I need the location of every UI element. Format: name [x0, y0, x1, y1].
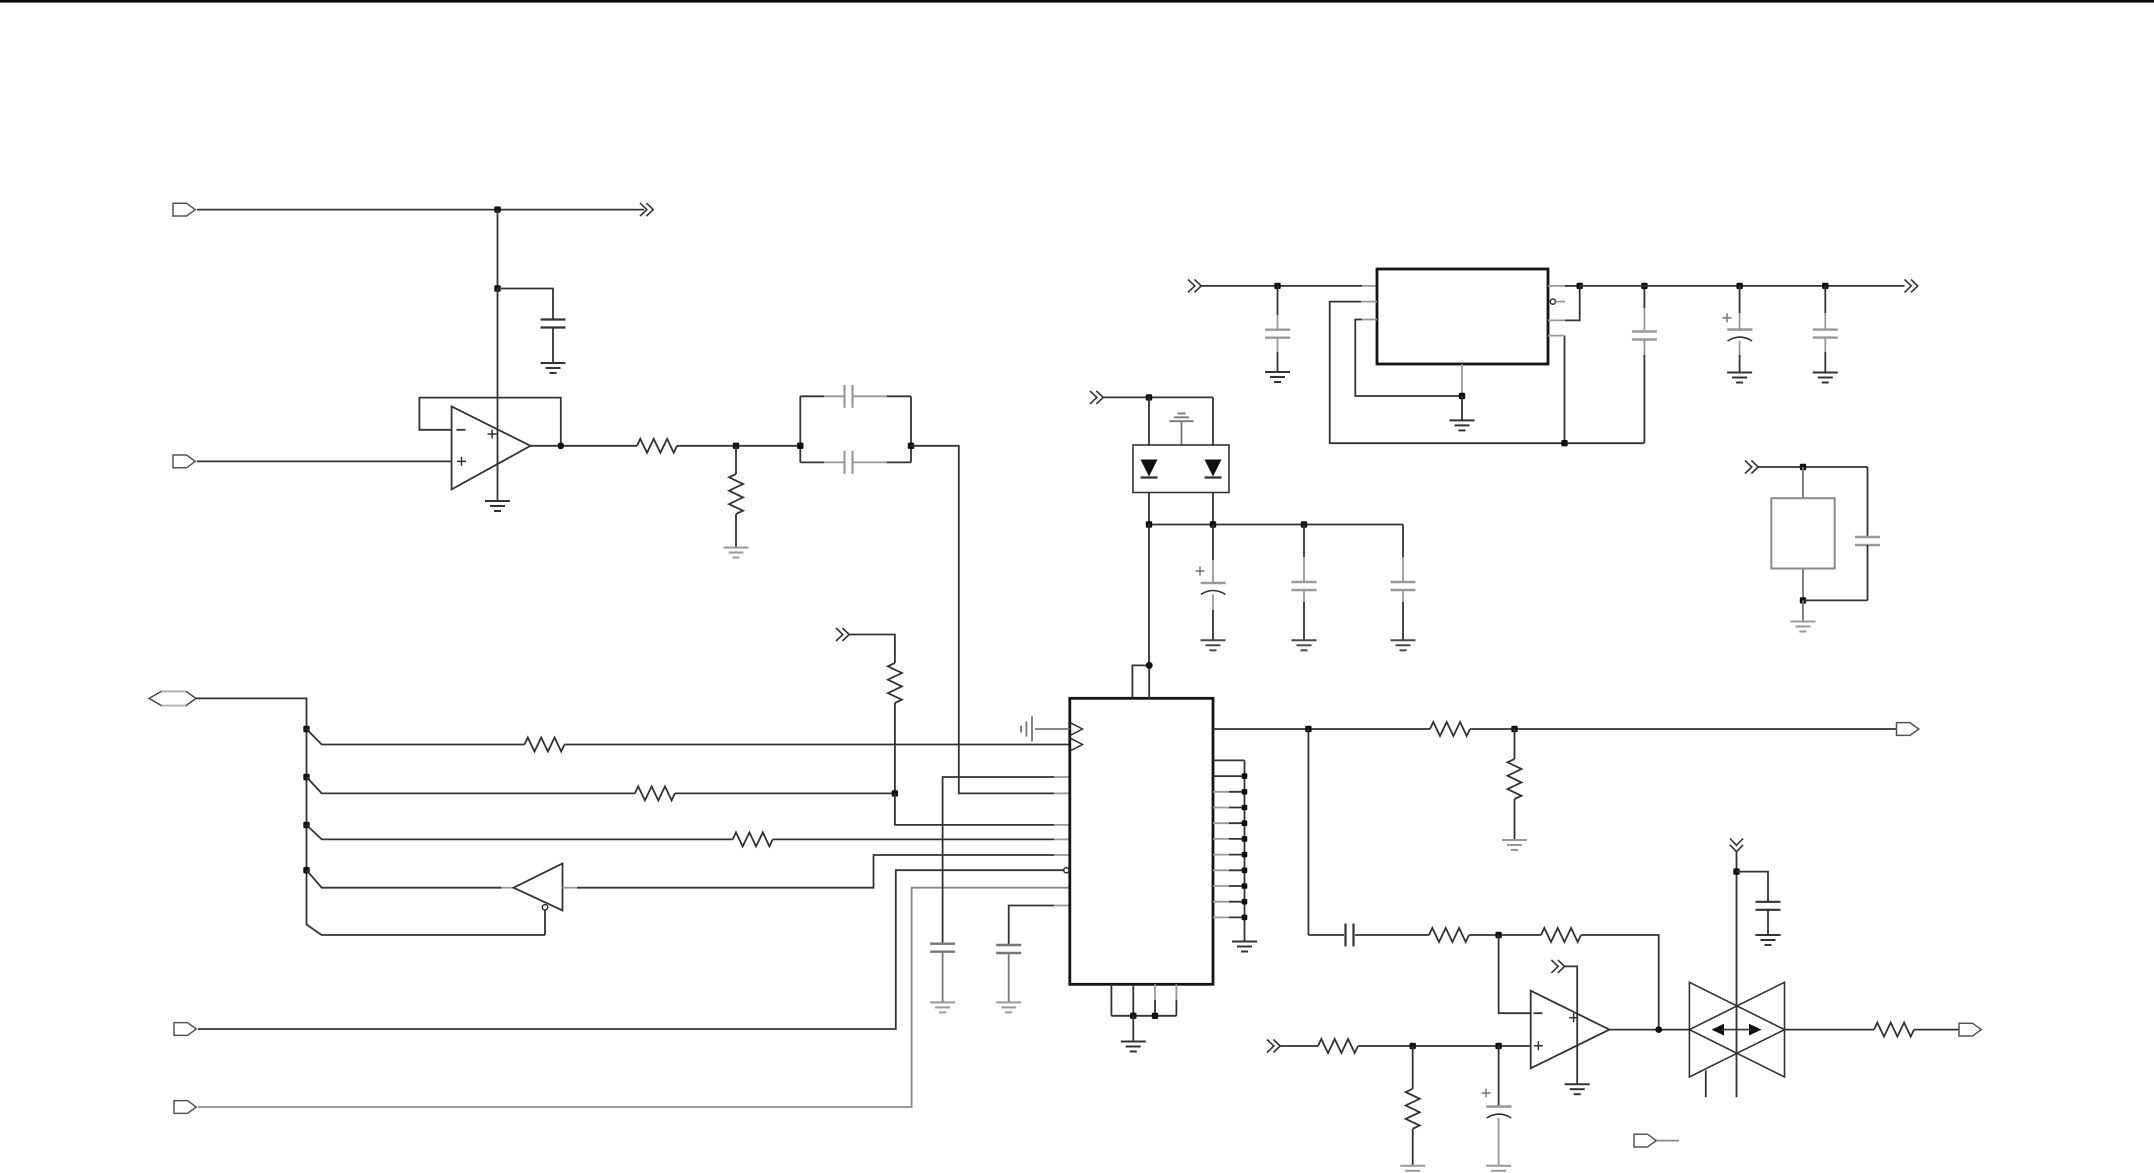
wire lead to C15 [1498, 1046, 1500, 1107]
wire C9 lower lead [1303, 602, 1305, 640]
capacitor C5 [1632, 332, 1657, 340]
ground gray [1502, 840, 1527, 850]
connector J5 [174, 1101, 196, 1114]
wire C10 lower lead [1402, 602, 1404, 640]
wire R13 to connector [1914, 1029, 1959, 1031]
wire main output line [1580, 285, 1905, 287]
wire C6 lower lead [1739, 355, 1741, 372]
wire gray lead to C3 [824, 461, 845, 463]
node junction [1736, 283, 1742, 289]
connector J4 [174, 1023, 196, 1036]
resistor R7 [1430, 722, 1470, 736]
electrolytic capacitor C8 plus label [1196, 567, 1205, 576]
wire gray stub pin [1054, 792, 1070, 794]
wire bottom branch left lead [800, 461, 824, 463]
wire node to ground [1461, 396, 1463, 420]
wire R8 to ground [1514, 799, 1516, 840]
chassis ground sideways at pin1 [1021, 717, 1070, 742]
diode D1b [1205, 460, 1222, 478]
node junction [303, 867, 309, 873]
ground gray [724, 548, 749, 558]
electrolytic capacitor C6 [1727, 330, 1752, 341]
connector J7 output [1959, 1023, 1981, 1036]
ground [1265, 372, 1290, 382]
resistor R10 [1541, 928, 1581, 942]
ground [1813, 373, 1838, 383]
node junction [1274, 283, 1280, 289]
wire U1 output [531, 445, 638, 447]
node junction [892, 790, 898, 796]
crystal Y1 [1771, 498, 1834, 568]
resistor R1 [637, 439, 677, 453]
wire C11 down [1867, 545, 1869, 600]
U1 V+ label [488, 430, 497, 439]
node junction [908, 443, 914, 449]
node junction [1305, 726, 1311, 732]
ground gray [1400, 1166, 1425, 1173]
wire C13 to ground [1008, 953, 1010, 1002]
wire C4 lower lead [1277, 352, 1279, 372]
wire buffer input from U3 [577, 855, 1054, 888]
wire lead to C9 [1303, 525, 1305, 558]
capacitor C16 [1756, 902, 1781, 910]
ground [1121, 1042, 1146, 1052]
buffer U4 triangle [514, 864, 563, 911]
off-page arrow bias [836, 628, 849, 641]
node junction [303, 726, 309, 732]
wire gray stubs right pins [1213, 792, 1229, 918]
wire U2 pin2 loop to bottom rail [1330, 302, 1645, 444]
node junction [1822, 283, 1828, 289]
wire to C1 [498, 289, 554, 320]
resistor R2 vertical [729, 474, 743, 514]
capacitor C10 [1391, 582, 1416, 590]
ground gray [1201, 640, 1226, 650]
U5 plus input label [1534, 1041, 1543, 1050]
wire to ground [1802, 600, 1804, 621]
ground [1727, 373, 1752, 383]
wire gray lead from C2 [853, 395, 888, 397]
wire gray stub buffer output [501, 887, 514, 889]
wire branch2 [307, 777, 635, 793]
wire C7 lower lead [1824, 352, 1826, 372]
node junction [1146, 521, 1152, 527]
wire gray stub U2 sense [1548, 319, 1565, 321]
wire J2 to U1 plus input [197, 460, 452, 462]
wire top branch right lead [887, 395, 911, 397]
wire R1 to node [677, 445, 800, 447]
wire R7 to connector [1470, 728, 1897, 730]
resistor R4 [635, 786, 675, 800]
ground gray [1486, 1166, 1511, 1173]
capacitor C13 [996, 945, 1021, 953]
wire R6 to node [894, 703, 896, 793]
wire lead to C7 [1824, 286, 1826, 313]
node junction [303, 774, 309, 780]
wire supply into U5 [1564, 966, 1577, 1083]
wire gray lead C7 [1824, 313, 1826, 330]
off-page arrow VIN [1188, 279, 1201, 292]
ground gray [1391, 640, 1416, 650]
node junction [1495, 932, 1501, 938]
wire R12 lead [1412, 1046, 1414, 1089]
wire C4 to ground [1277, 338, 1279, 352]
node junction [1152, 1013, 1158, 1019]
wire gray stub pin [1054, 854, 1070, 856]
resistor R9 [1429, 928, 1469, 942]
wire C5 to rail [1643, 340, 1645, 356]
diode D1a [1141, 460, 1158, 478]
wire C15 to ground [1498, 1118, 1500, 1165]
wire U3 pin to C13 [1009, 906, 1054, 946]
wire R12 to ground [1412, 1129, 1414, 1166]
wire U5 output [1609, 1029, 1689, 1031]
electrolytic capacitor C15 [1486, 1107, 1511, 1118]
off-page arrow 3V3 out [1905, 279, 1918, 292]
electrolytic capacitor C15 plus label [1482, 1089, 1491, 1098]
capacitor C12 [930, 944, 955, 952]
wire right diode vertical [1212, 397, 1214, 524]
wire C16 to ground [1767, 910, 1769, 935]
wire U3 pin to C12 [943, 777, 1054, 944]
wire branch2 to node [675, 792, 895, 794]
wire jog into U3 pin [895, 793, 1054, 825]
node junction [1130, 1013, 1136, 1019]
wire C6 to ground [1739, 341, 1741, 355]
node junction [1733, 868, 1739, 874]
wire gray stub U2 pin2 [1361, 301, 1377, 303]
wire right bus vertical [1244, 760, 1246, 930]
wire branch1 to U3 [565, 744, 1070, 746]
wire node to R2 [735, 446, 737, 474]
wire J5 up to U3 pin gray [198, 888, 1070, 1107]
wire C1 to ground [552, 328, 554, 364]
wire audio to R11 [1280, 1045, 1319, 1047]
wire bottom branch right lead [887, 461, 911, 463]
wire branch3 to U3 [773, 838, 1054, 840]
varistor RV1 bowtie [1689, 982, 1784, 1077]
wire node to C16 [1737, 872, 1769, 902]
wire lead to C14 [1308, 934, 1344, 936]
wire gray stub U2 pin3 [1362, 319, 1377, 321]
wire U2 pin4 down to rail [1564, 336, 1566, 444]
wire bus below diodes [1149, 524, 1403, 526]
wire net VREF top [197, 209, 644, 211]
wire VBUS to diode box [1103, 396, 1214, 398]
node junction [797, 443, 803, 449]
ground [1450, 420, 1475, 430]
wire gray lead to C2 [824, 395, 845, 397]
wire U2 bottom pin [1461, 364, 1463, 396]
wire RC output down to U3 pin [911, 446, 1054, 794]
wire bottom rail [1111, 1015, 1176, 1017]
wire C8 lower lead [1212, 610, 1214, 640]
node junction [1655, 1026, 1662, 1033]
wire R9 to node [1469, 934, 1541, 936]
wire gray lead C6 [1739, 313, 1741, 330]
node junction [1459, 393, 1465, 399]
voltage regulator U2 [1377, 269, 1548, 364]
capacitor C4 [1265, 330, 1290, 338]
wire varistor top vertical [1736, 852, 1738, 1097]
wire gray stub pin [1054, 824, 1070, 826]
capacitor C7 [1813, 330, 1838, 338]
wire C5 lower lead [1643, 355, 1645, 443]
wire right branch to C11 [1867, 467, 1869, 537]
node junction [1301, 521, 1307, 527]
ground [1232, 942, 1257, 952]
wire bias to R6 [849, 635, 895, 664]
wire U3 top supply notch [1132, 665, 1149, 698]
connector J1 [173, 203, 195, 216]
node junction [733, 443, 739, 449]
wire R11 to U5 plus input [1358, 1045, 1531, 1047]
wire U2 pin3 to ground node [1355, 320, 1462, 397]
resistor R5 [733, 832, 773, 846]
wire gray stub buffer input [563, 887, 578, 889]
resistor R6 vertical [888, 663, 902, 703]
resistor R12 vertical [1406, 1089, 1420, 1129]
node junction [1800, 597, 1806, 603]
U3 clock chevron pin2 [1071, 738, 1083, 750]
capacitor C2 [845, 385, 853, 408]
wire gray lead C9 [1303, 557, 1305, 582]
wire U1 negative supply to ground [497, 463, 499, 501]
wire J8 stub [1657, 1140, 1680, 1142]
wire branch3 [307, 825, 733, 839]
U1 plus input label [457, 457, 466, 466]
wire node to U5 minus input [1499, 935, 1531, 1013]
wire gray lead C4 [1277, 315, 1279, 330]
wire trunk [196, 698, 545, 935]
wire gray stubs bottom pins [1155, 984, 1176, 1000]
ground gray [996, 1002, 1021, 1012]
wire enable from trunk [544, 911, 546, 936]
wire gray stub U2 out [1548, 285, 1565, 287]
wire rail to ground [1132, 1016, 1134, 1041]
wire R10 to feedback corner [1581, 935, 1659, 1030]
node junction [1146, 662, 1153, 669]
wire vertical into op-amp U1 [497, 289, 499, 464]
U1 minus label [457, 429, 466, 431]
wire gray lead C5 top [1643, 308, 1645, 332]
wire VIN to regulator [1201, 285, 1363, 287]
off-page arrow audio in [1267, 1040, 1280, 1053]
resistor R11 [1318, 1039, 1358, 1053]
varistor arrow shaft [1722, 1029, 1751, 1031]
connector J8 unconnected [1634, 1134, 1656, 1147]
wire bottom across [1803, 599, 1868, 601]
wire C7 to ground [1824, 338, 1826, 352]
node junction [1495, 1043, 1501, 1049]
inverted chassis ground above box [1170, 414, 1194, 446]
wire C8 to ground [1212, 594, 1214, 610]
node junction [494, 285, 500, 291]
node junction [303, 822, 309, 828]
resistor R3 [525, 738, 565, 752]
U5 V+ label [1569, 1013, 1578, 1022]
wire to U3 supply pin [1148, 525, 1150, 666]
U2 inverted pin circle [1550, 299, 1555, 304]
wire vertical from junction [497, 210, 499, 289]
wire gray lead from C3 [853, 461, 888, 463]
IC U3 body [1070, 698, 1213, 984]
wire branch4 to buffer output [307, 870, 502, 888]
ground [541, 363, 566, 373]
electrolytic capacitor C6 plus label [1723, 313, 1732, 322]
wire lead to C4 [1277, 286, 1279, 315]
buffer U4 enable bubble [542, 905, 547, 910]
capacitor C14 [1346, 924, 1354, 947]
node junction [1800, 464, 1806, 470]
wire C12 to ground [942, 952, 944, 1002]
node junction output [557, 442, 564, 449]
connector J6 output [1897, 723, 1919, 736]
U3 clock chevron pin1 [1071, 723, 1083, 735]
op-amp U1 [452, 407, 531, 490]
ground gray [930, 1002, 955, 1012]
U3 inverted pin circle [1064, 868, 1069, 873]
node junction [1410, 1043, 1416, 1049]
off-page arrow U5 supply [1551, 960, 1564, 973]
wire crystal bottom [1802, 569, 1804, 601]
varistor arrows [1712, 1024, 1762, 1036]
wire gray lead C10 [1402, 557, 1404, 582]
wire RC block right vertical [910, 396, 912, 462]
wire C10 to ground [1402, 590, 1404, 602]
wire bus to ground [1244, 930, 1246, 941]
wire gray stub pin [1054, 905, 1070, 907]
wire U2 output pin [1565, 285, 1580, 287]
ground [485, 501, 510, 511]
wire J4 up to U3 circle pin [198, 870, 1063, 1029]
op-amp U5 [1531, 991, 1610, 1069]
wire gray lead C8 [1212, 560, 1214, 583]
wire U2 sense pin up to output node [1565, 286, 1580, 321]
ground gray [1791, 622, 1816, 632]
wire gray stub U2 pin4 [1548, 335, 1565, 337]
wire CLK node [1758, 466, 1868, 468]
off-page arrow CLK [1745, 461, 1758, 474]
wire varistor gate stub [1705, 1070, 1707, 1097]
wire varistor output [1785, 1029, 1875, 1031]
wire branch1 [307, 729, 525, 745]
capacitor C3 [845, 451, 853, 474]
resistor R8 vertical [1508, 759, 1522, 799]
wire gray stub U2 in [1362, 285, 1377, 287]
wire left diode vertical [1148, 397, 1150, 524]
wire lead to C8 [1212, 525, 1214, 561]
node junction [1511, 726, 1517, 732]
wire C9 to ground [1303, 590, 1305, 602]
ground [1565, 1084, 1590, 1094]
title bar [0, 0, 2154, 3]
wire into crystal Y1 [1802, 467, 1804, 498]
wire R8 top lead [1514, 729, 1516, 759]
node junction [1146, 394, 1152, 400]
wire gray stub pin [1054, 838, 1070, 840]
wire R2 to ground [735, 514, 737, 547]
ground gray [1292, 640, 1317, 650]
wire stub from circle pin [1556, 301, 1566, 303]
connector J2 [173, 455, 195, 468]
TVS box D1 [1133, 445, 1229, 493]
off-page arrow down to varistor [1730, 839, 1743, 852]
ground [1756, 935, 1781, 945]
U5 minus label [1534, 1012, 1543, 1014]
off-page arrow VBUS [1090, 391, 1103, 404]
wire U3 output pin right [1213, 728, 1430, 730]
wire C14 to R9 [1355, 934, 1429, 936]
wire U3 bottom pins [1111, 984, 1176, 1016]
wire corner to C10 [1402, 525, 1404, 558]
node junction [1577, 283, 1583, 289]
wire lead to C6 [1739, 286, 1741, 313]
wire feedback vertical with C5 [1643, 286, 1645, 308]
off-page arrow VREF [640, 203, 653, 216]
capacitor C11 [1855, 537, 1880, 545]
wire RC block left vertical [799, 396, 801, 462]
capacitor C1 [541, 320, 566, 328]
wire U3 right pin row to bus [1213, 760, 1245, 917]
wire branch down from output line [1307, 729, 1309, 935]
wire top branch left lead [800, 395, 824, 397]
connector J3 hexagon [149, 691, 196, 705]
wire U1 feedback loop [419, 398, 560, 446]
node junction [1210, 521, 1216, 527]
capacitor C9 [1292, 582, 1317, 590]
node junction bus [1242, 773, 1248, 920]
resistor R13 [1874, 1023, 1914, 1037]
wire gray stub pin [1054, 776, 1070, 778]
node junction [494, 206, 500, 212]
node junction [1641, 283, 1647, 289]
electrolytic capacitor C8 [1201, 583, 1226, 594]
node junction [1561, 440, 1567, 446]
